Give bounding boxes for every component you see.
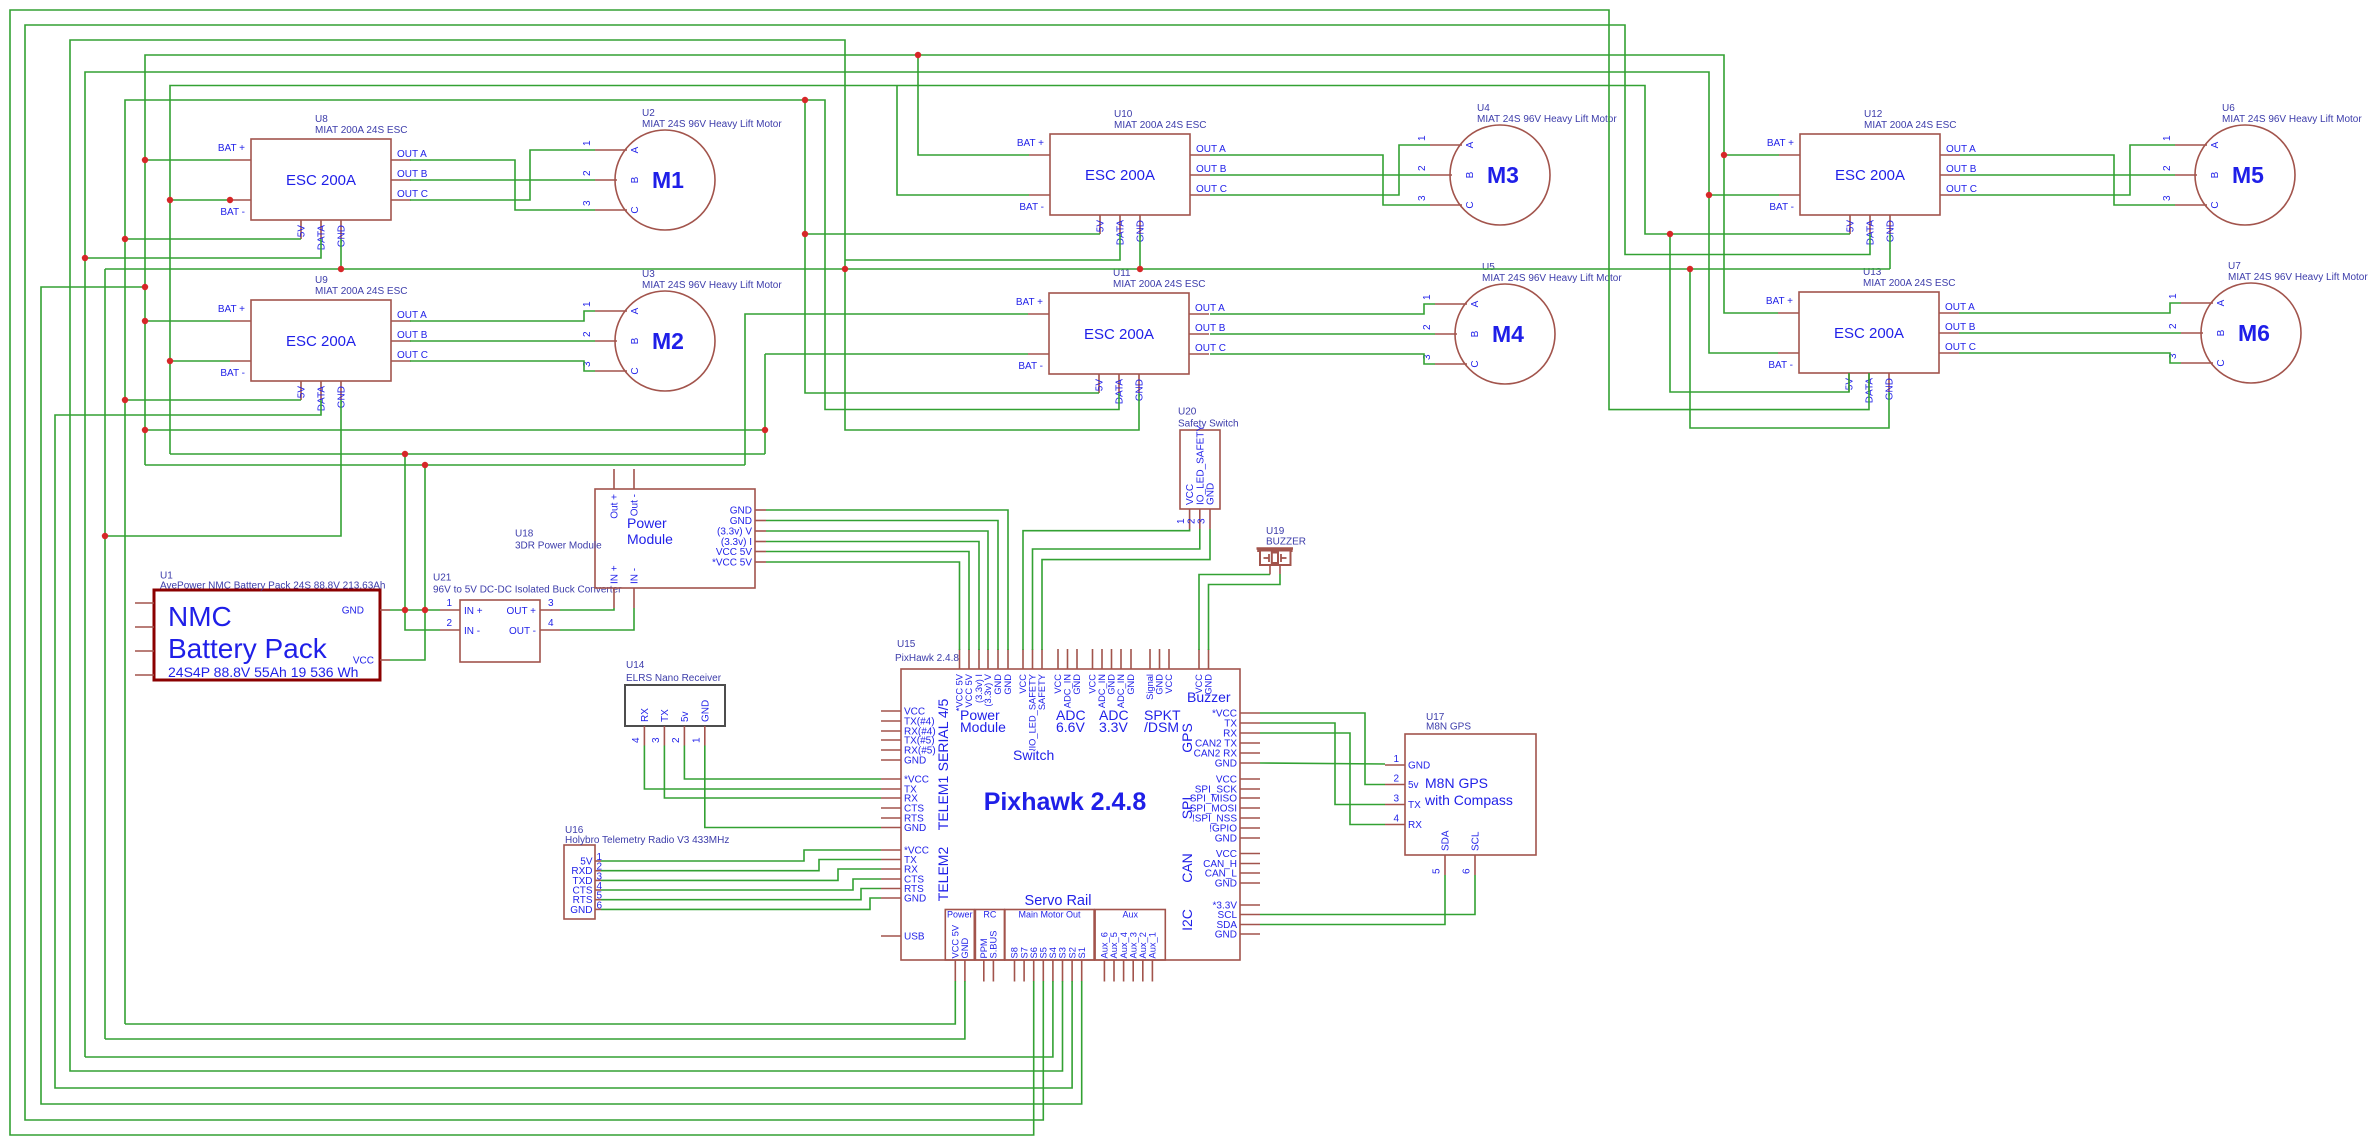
wire buck OUT- to power module IN- [560,608,634,630]
svg-text:C: C [2216,359,2227,366]
svg-text:BAT +: BAT + [1017,138,1044,149]
svg-text:B: B [1470,330,1481,337]
wire GPS SCL to Pixhawk SCL [1260,875,1475,915]
svg-text:ESC 200A: ESC 200A [1835,167,1905,184]
wire U10 GND drop [1139,234,1141,269]
svg-text:Holybro Telemetry Radio V3 433: Holybro Telemetry Radio V3 433MHz [565,835,729,846]
svg-text:(3.3v) V: (3.3v) V [983,673,993,706]
svg-text:S.BUS: S.BUS [989,931,999,959]
svg-text:U4: U4 [1477,103,1490,114]
motor M3 (U4) MIAT 24S 96V Heavy Lift Motor [1417,103,1617,225]
svg-text:NMC: NMC [168,601,232,632]
svg-text:VCC: VCC [1053,674,1063,694]
wire U13 OUT B to M6 pin2 [1959,332,2181,334]
wire U12 OUT C to M5 pin1 [1960,145,2175,195]
svg-text:A: A [2216,299,2227,306]
svg-text:VCC: VCC [1018,674,1028,694]
svg-text:B: B [1465,171,1476,178]
svg-text:S6: S6 [1029,947,1039,958]
svg-text:Main Motor Out: Main Motor Out [1018,910,1081,920]
svg-text:5V: 5V [1845,378,1856,391]
svg-text:Aux_5: Aux_5 [1109,932,1119,958]
svg-text:VCC 5V: VCC 5V [964,673,974,707]
wire Pixhawk GPS *VCC to GPS 5v [1260,713,1385,785]
svg-text:VCC 5V: VCC 5V [716,547,752,558]
svg-text:OUT B: OUT B [397,330,428,341]
svg-text:3: 3 [582,200,593,206]
svg-text:S2: S2 [1067,947,1077,958]
svg-text:DATA: DATA [1116,220,1127,246]
svg-text:VCC: VCC [1164,674,1174,694]
wire buzzer pin2 to Pixhawk buzzer GND [1209,574,1281,650]
wire top bus 2 (U12 DATA to Pixhawk S5 loop) [25,25,1870,1120]
wire receiver RX to TELEM1 TX [644,746,881,790]
svg-text:MIAT 24S 96V Heavy Lift Motor: MIAT 24S 96V Heavy Lift Motor [1477,114,1617,125]
svg-text:5V: 5V [1846,220,1857,233]
svg-text:GND: GND [1215,759,1237,770]
svg-text:U21: U21 [433,573,452,584]
wire telemetry 5V to TELEM2 *VCC [601,850,881,861]
svg-text:U10: U10 [1114,109,1133,120]
svg-text:5V: 5V [297,386,308,399]
wire U9 BAT+ feed [145,320,230,322]
svg-text:PixHawk 2.4.8: PixHawk 2.4.8 [895,653,959,664]
svg-text:TELEM1: TELEM1 [935,776,951,831]
svg-text:2: 2 [1422,324,1433,330]
wire U12 GND drop [1889,234,1891,269]
svg-text:Aux: Aux [1122,910,1138,920]
svg-text:ELRS Nano Receiver: ELRS Nano Receiver [626,673,722,684]
svg-text:BAT -: BAT - [1019,202,1044,213]
svg-text:2: 2 [671,737,682,743]
svg-text:GND: GND [1215,834,1237,845]
svg-text:OUT C: OUT C [1195,343,1226,354]
svg-text:GND: GND [1072,674,1082,695]
svg-text:Pixhawk 2.4.8: Pixhawk 2.4.8 [984,788,1147,816]
svg-text:Switch: Switch [1013,747,1054,763]
wire U8 BAT+ feed [145,159,230,161]
wire Pixhawk GPS GND to GPS GND [1260,763,1385,764]
svg-text:GND: GND [1885,378,1896,400]
svg-text:IN +: IN + [464,606,483,617]
svg-text:USB: USB [904,932,925,943]
wire battery VCC riser to bus [390,465,425,660]
wire safety switch pin2 to Pixhawk IO_LED_SAFETY [1033,529,1200,650]
svg-text:/DSM: /DSM [1144,719,1179,735]
wire U8 GND drop [340,239,342,269]
svg-text:4: 4 [1393,814,1399,825]
wire U11 OUT B to M4 pin2 [1210,333,1435,335]
svg-text:TX: TX [660,709,671,722]
buzzer U19 [1257,526,1307,575]
svg-text:OUT C: OUT C [397,189,428,200]
wire U10 OUT C to M3 pin1 [1210,145,1430,195]
wire top bus 5 BAT- net (U12/U13) [85,72,1778,1057]
wire U11 BAT+ feed [745,314,1028,465]
svg-text:BAT -: BAT - [220,368,245,379]
svg-text:OUT A: OUT A [1195,303,1225,314]
svg-text:!IO_LED_SAFETY: !IO_LED_SAFETY [1028,674,1038,751]
wire U13 OUT C to M6 pin3 [1959,353,2181,363]
svg-text:U20: U20 [1178,407,1197,418]
ESC U12 MIAT 200A 24S ESC [1767,109,1977,245]
svg-text:Aux_4: Aux_4 [1119,932,1129,958]
wire U8 DATA [85,239,321,258]
svg-text:ADC_IN: ADC_IN [1116,674,1126,708]
svg-text:S1: S1 [1077,947,1087,958]
svg-text:M3: M3 [1487,162,1519,188]
svg-text:3: 3 [1393,794,1399,805]
motor M1 (U2) MIAT 24S 96V Heavy Lift Motor [582,108,782,230]
svg-text:RC: RC [983,910,996,920]
svg-text:1: 1 [582,301,593,307]
svg-text:GND: GND [1126,674,1136,695]
svg-text:Power: Power [947,910,973,920]
buck converter U21 96V to 5V DC-DC [433,573,622,663]
svg-text:1: 1 [691,737,702,743]
wire U9 OUT B to M2 pin2 [410,340,595,342]
svg-text:MIAT 200A 24S ESC: MIAT 200A 24S ESC [1863,278,1955,289]
ESC U10 MIAT 200A 24S ESC [1017,109,1227,245]
wire buzzer pin1 to Pixhawk buzzer VCC [1199,575,1270,651]
svg-text:MIAT 24S 96V Heavy Lift Motor: MIAT 24S 96V Heavy Lift Motor [642,119,782,130]
wire VCC5V bottom rail [125,981,955,1024]
svg-text:3: 3 [1197,518,1208,524]
wire U10 BAT- feed [897,86,1029,196]
svg-text:TX: TX [1408,800,1421,811]
svg-text:ESC 200A: ESC 200A [1834,325,1904,342]
wire GPS SDA to Pixhawk SDA [1260,875,1445,925]
svg-text:ADC_IN: ADC_IN [1097,674,1107,708]
svg-text:2: 2 [582,170,593,176]
svg-text:5V: 5V [1096,220,1107,233]
svg-text:M8N GPS: M8N GPS [1426,722,1471,733]
svg-text:OUT A: OUT A [1196,144,1226,155]
svg-text:M1: M1 [652,167,684,193]
svg-text:C: C [2210,201,2221,208]
safety switch U20 [1176,407,1238,530]
svg-text:GND: GND [960,938,970,959]
wire U9 BAT- feed [170,360,230,362]
svg-text:ESC 200A: ESC 200A [1085,167,1155,184]
svg-text:96V to 5V DC-DC Isolated Buck: 96V to 5V DC-DC Isolated Buck Converter [433,585,622,596]
svg-text:GND: GND [337,225,348,247]
svg-text:Module: Module [627,531,673,547]
wire U11 BAT- feed [765,353,1028,355]
svg-text:*VCC 5V: *VCC 5V [712,558,752,569]
svg-text:S8: S8 [1010,947,1020,958]
wire buck OUT+ to power module IN+ [560,608,614,610]
svg-text:SDA: SDA [1441,830,1452,851]
svg-text:B: B [2216,329,2227,336]
svg-text:OUT A: OUT A [397,149,427,160]
svg-text:3: 3 [651,737,662,743]
svg-text:S5: S5 [1039,947,1049,958]
wire GND bus to battery riser [405,454,440,630]
wire U13 OUT A to M6 pin1 [1959,303,2181,313]
svg-text:MIAT 200A 24S ESC: MIAT 200A 24S ESC [315,286,407,297]
svg-text:S3: S3 [1058,947,1068,958]
wire top bus 4 BAT+ net [145,55,1778,465]
wire telemetry RTS to TELEM2 RTS [601,889,881,900]
wire U12 BAT- feed [1709,194,1779,196]
svg-text:OUT A: OUT A [1945,302,1975,313]
wire U13 DATA stub drop [1868,373,1870,392]
svg-text:1: 1 [582,140,593,146]
svg-text:3.3V: 3.3V [1099,719,1128,735]
wire U8 OUT C to M1 pin1 [410,150,595,200]
svg-text:U12: U12 [1864,109,1883,120]
wire U8 BAT- feed [170,199,230,201]
svg-text:GND: GND [730,506,752,517]
svg-text:Aux_3: Aux_3 [1128,932,1138,958]
svg-text:GND: GND [1107,674,1117,695]
svg-text:C: C [1470,360,1481,367]
svg-text:BAT -: BAT - [220,207,245,218]
wire top bus 6 (to right 5V rail) [170,86,1850,455]
svg-text:M2: M2 [652,328,684,354]
wire telemetry RXD to TELEM2 TX [601,860,881,871]
ELRS nano receiver U14 [625,660,725,746]
svg-text:Signal: Signal [1145,674,1155,700]
svg-text:1: 1 [2162,135,2173,141]
svg-text:GND: GND [1135,379,1146,401]
svg-text:6: 6 [1462,868,1473,874]
wire telemetry CTS to TELEM2 CTS [601,879,881,890]
motor M6 (U7) MIAT 24S 96V Heavy Lift Motor [2168,261,2368,383]
svg-text:S7: S7 [1019,947,1029,958]
wire U11 OUT A to M4 pin1 [1210,304,1435,314]
wire U10 5V feed [805,233,1100,235]
svg-text:BAT -: BAT - [1768,360,1793,371]
svg-text:TELEM2: TELEM2 [935,847,951,902]
svg-text:U9: U9 [315,275,328,286]
wire top bus 7 (5V rail / U11 DATA) [125,100,1119,1024]
svg-text:DATA: DATA [1115,379,1126,405]
svg-text:GPS: GPS [1179,723,1195,753]
svg-text:VCC 5V: VCC 5V [951,924,961,958]
svg-text:C: C [630,367,641,374]
svg-text:ADC_IN: ADC_IN [1063,674,1073,708]
svg-text:2: 2 [1417,165,1428,171]
wire safety switch pin1 to Pixhawk VCC [1023,529,1190,650]
wire Pixhawk GPS RX to GPS RX [1260,733,1385,825]
svg-text:MIAT 24S 96V Heavy Lift Motor: MIAT 24S 96V Heavy Lift Motor [642,280,782,291]
svg-text:Servo Rail: Servo Rail [1025,893,1092,909]
svg-text:GND: GND [904,894,926,905]
svg-text:ESC 200A: ESC 200A [286,333,356,350]
wire S1 loop to y287 line [41,287,1082,1104]
wire top bus 3 (U10 DATA / U11 GND to Pixhawk S3 loop) [70,40,1139,1071]
svg-text:3DR Power Module: 3DR Power Module [515,541,602,552]
wire U9 OUT C to M2 pin3 [410,361,595,371]
wire Pixhawk S4 branch [85,981,1053,1057]
svg-text:VCC: VCC [1088,674,1098,694]
wire PM GND1 to Pixhawk [766,510,1008,650]
svg-text:MIAT 200A 24S ESC: MIAT 200A 24S ESC [1114,120,1206,131]
svg-text:S4: S4 [1048,947,1058,958]
svg-text:M5: M5 [2232,162,2264,188]
svg-text:U3: U3 [642,269,655,280]
svg-text:Out +: Out + [610,494,621,519]
wire PM 3.3vI to Pixhawk [766,542,979,651]
svg-text:GND: GND [730,516,752,527]
svg-text:U5: U5 [1482,262,1495,273]
svg-text:IN +: IN + [610,565,621,584]
svg-text:CAN: CAN [1179,853,1195,883]
svg-text:U2: U2 [642,108,655,119]
svg-text:6.6V: 6.6V [1056,719,1085,735]
wire receiver 5v to TELEM1 *VCC [684,746,881,780]
svg-text:A: A [630,146,641,153]
svg-text:5v: 5v [680,711,691,722]
svg-text:ESC 200A: ESC 200A [1084,326,1154,343]
svg-text:OUT C: OUT C [1945,342,1976,353]
svg-text:5v: 5v [1408,780,1419,791]
svg-text:B: B [2210,171,2221,178]
svg-text:OUT C: OUT C [1196,184,1227,195]
wire U12 BAT+ feed [1724,154,1779,156]
svg-text:1: 1 [1422,294,1433,300]
svg-text:Safety Switch: Safety Switch [1178,419,1239,430]
svg-text:GND: GND [904,823,926,834]
svg-text:GND: GND [1155,674,1165,695]
svg-text:24S4P 88.8V 55Ah 19 536 Wh: 24S4P 88.8V 55Ah 19 536 Wh [168,664,358,680]
wire top bus 1 (U13 DATA to Pixhawk S6 loop) [10,10,1869,1135]
wire Pixhawk GPS TX to GPS TX [1260,723,1385,805]
svg-text:MIAT 200A 24S ESC: MIAT 200A 24S ESC [315,125,407,136]
svg-text:IN -: IN - [464,626,480,637]
svg-text:with Compass: with Compass [1424,792,1513,808]
svg-text:VCC: VCC [353,656,374,667]
svg-text:GND: GND [700,700,711,722]
svg-text:1: 1 [2168,293,2179,299]
ESC U13 MIAT 200A 24S ESC [1766,267,1976,403]
svg-text:OUT +: OUT + [506,606,536,617]
wire U10 OUT B to M3 pin2 [1210,174,1430,176]
wire PM *VCC5V to Pixhawk [766,562,960,650]
wire PM GND2 to Pixhawk [766,521,998,651]
svg-text:Aux_1: Aux_1 [1148,932,1158,958]
ESC U8 MIAT 200A 24S ESC [218,114,428,250]
telemetry radio U16 Holybro V3 433MHz [564,825,729,919]
wire jog line y430 [145,429,765,431]
svg-text:(3.3v) V: (3.3v) V [717,527,752,538]
wire receiver TX to TELEM1 RX [664,746,881,799]
wire U8 5V [125,238,301,240]
svg-text:2: 2 [446,618,452,629]
svg-text:2: 2 [1393,774,1399,785]
svg-text:OUT B: OUT B [1945,322,1976,333]
svg-text:SPI: SPI [1179,797,1195,820]
wire U11 OUT C to M4 pin3 [1210,354,1435,364]
wire U8 OUT A to M1 pin3 [410,160,595,210]
svg-text:U14: U14 [626,660,645,671]
svg-text:A: A [1470,300,1481,307]
svg-text:AvePower NMC Battery Pack 24S: AvePower NMC Battery Pack 24S 88.8V 213.… [160,581,386,592]
svg-text:GND: GND [1886,220,1897,242]
svg-text:MIAT 200A 24S ESC: MIAT 200A 24S ESC [1113,279,1205,290]
svg-text:2: 2 [2168,323,2179,329]
svg-text:GND: GND [1215,879,1237,890]
svg-text:5V: 5V [297,225,308,238]
wire U10 OUT A to M3 pin3 [1210,155,1430,205]
svg-text:M6: M6 [2238,320,2270,346]
svg-text:B: B [630,337,641,344]
flight controller U15 PixHawk 2.4.8 [881,639,1260,982]
svg-text:BAT -: BAT - [1769,202,1794,213]
svg-text:MIAT 200A 24S ESC: MIAT 200A 24S ESC [1864,120,1956,131]
svg-text:B: B [630,176,641,183]
svg-text:DATA: DATA [317,225,328,251]
wire GND bus left riser [104,269,106,1039]
svg-text:OUT B: OUT B [1196,164,1227,175]
ESC U11 MIAT 200A 24S ESC [1016,268,1226,404]
wire PM 3.3vV to Pixhawk [766,531,988,650]
svg-text:U8: U8 [315,114,328,125]
svg-text:GND: GND [1215,930,1237,941]
svg-text:BAT +: BAT + [1766,296,1793,307]
svg-text:IN -: IN - [630,568,641,584]
wire GND line y454 [170,453,765,455]
svg-text:MIAT 24S 96V Heavy Lift Motor: MIAT 24S 96V Heavy Lift Motor [2228,272,2368,283]
ESC U9 MIAT 200A 24S ESC [218,275,428,411]
svg-text:OUT A: OUT A [1946,144,1976,155]
svg-text:5: 5 [1432,868,1443,874]
svg-text:M4: M4 [1492,321,1524,347]
wire VCC bus y465 [145,464,745,466]
svg-text:*VCC 5V: *VCC 5V [955,673,965,711]
svg-text:2: 2 [2162,165,2173,171]
svg-text:BAT +: BAT + [1016,297,1043,308]
svg-text:3: 3 [548,598,554,609]
svg-text:Aux_2: Aux_2 [1138,932,1148,958]
wire U12 OUT A to M5 pin3 [1960,155,2175,205]
svg-text:GND: GND [1136,220,1147,242]
wire U9 5V [125,399,301,401]
svg-text:OUT B: OUT B [1946,164,1977,175]
svg-text:RX: RX [640,708,651,722]
svg-text:SAFETY: SAFETY [1037,674,1047,710]
wire U10 BAT+ feed [918,55,1029,155]
svg-text:OUT -: OUT - [509,626,536,637]
motor M4 (U5) MIAT 24S 96V Heavy Lift Motor [1422,262,1622,384]
svg-text:MIAT 24S 96V Heavy Lift Motor: MIAT 24S 96V Heavy Lift Motor [1482,273,1622,284]
svg-text:Buzzer: Buzzer [1187,689,1231,705]
svg-text:BAT +: BAT + [218,143,245,154]
wire U9 OUT A to M2 pin1 [410,311,595,321]
motor M5 (U6) MIAT 24S 96V Heavy Lift Motor [2162,103,2362,225]
power module U18 3DR Power Module [515,469,766,608]
svg-text:C: C [630,206,641,213]
svg-text:DATA: DATA [1866,220,1877,246]
svg-text:3: 3 [1417,195,1428,201]
wire U13 5V riser [1670,234,1849,392]
wire U12 OUT B to M5 pin2 [1960,174,2175,176]
svg-text:OUT C: OUT C [397,350,428,361]
svg-text:I2C: I2C [1179,909,1195,931]
svg-text:DATA: DATA [317,386,328,412]
svg-text:Module: Module [960,719,1006,735]
svg-text:U15: U15 [897,639,916,650]
svg-text:Aux_6: Aux_6 [1100,932,1110,958]
svg-text:A: A [2210,141,2221,148]
svg-text:BAT -: BAT - [1018,361,1043,372]
svg-text:MIAT 24S 96V Heavy Lift Motor: MIAT 24S 96V Heavy Lift Motor [2222,114,2362,125]
svg-text:BAT +: BAT + [218,304,245,315]
wire U8 OUT B to M1 pin2 [410,179,595,181]
svg-text:4: 4 [548,618,554,629]
